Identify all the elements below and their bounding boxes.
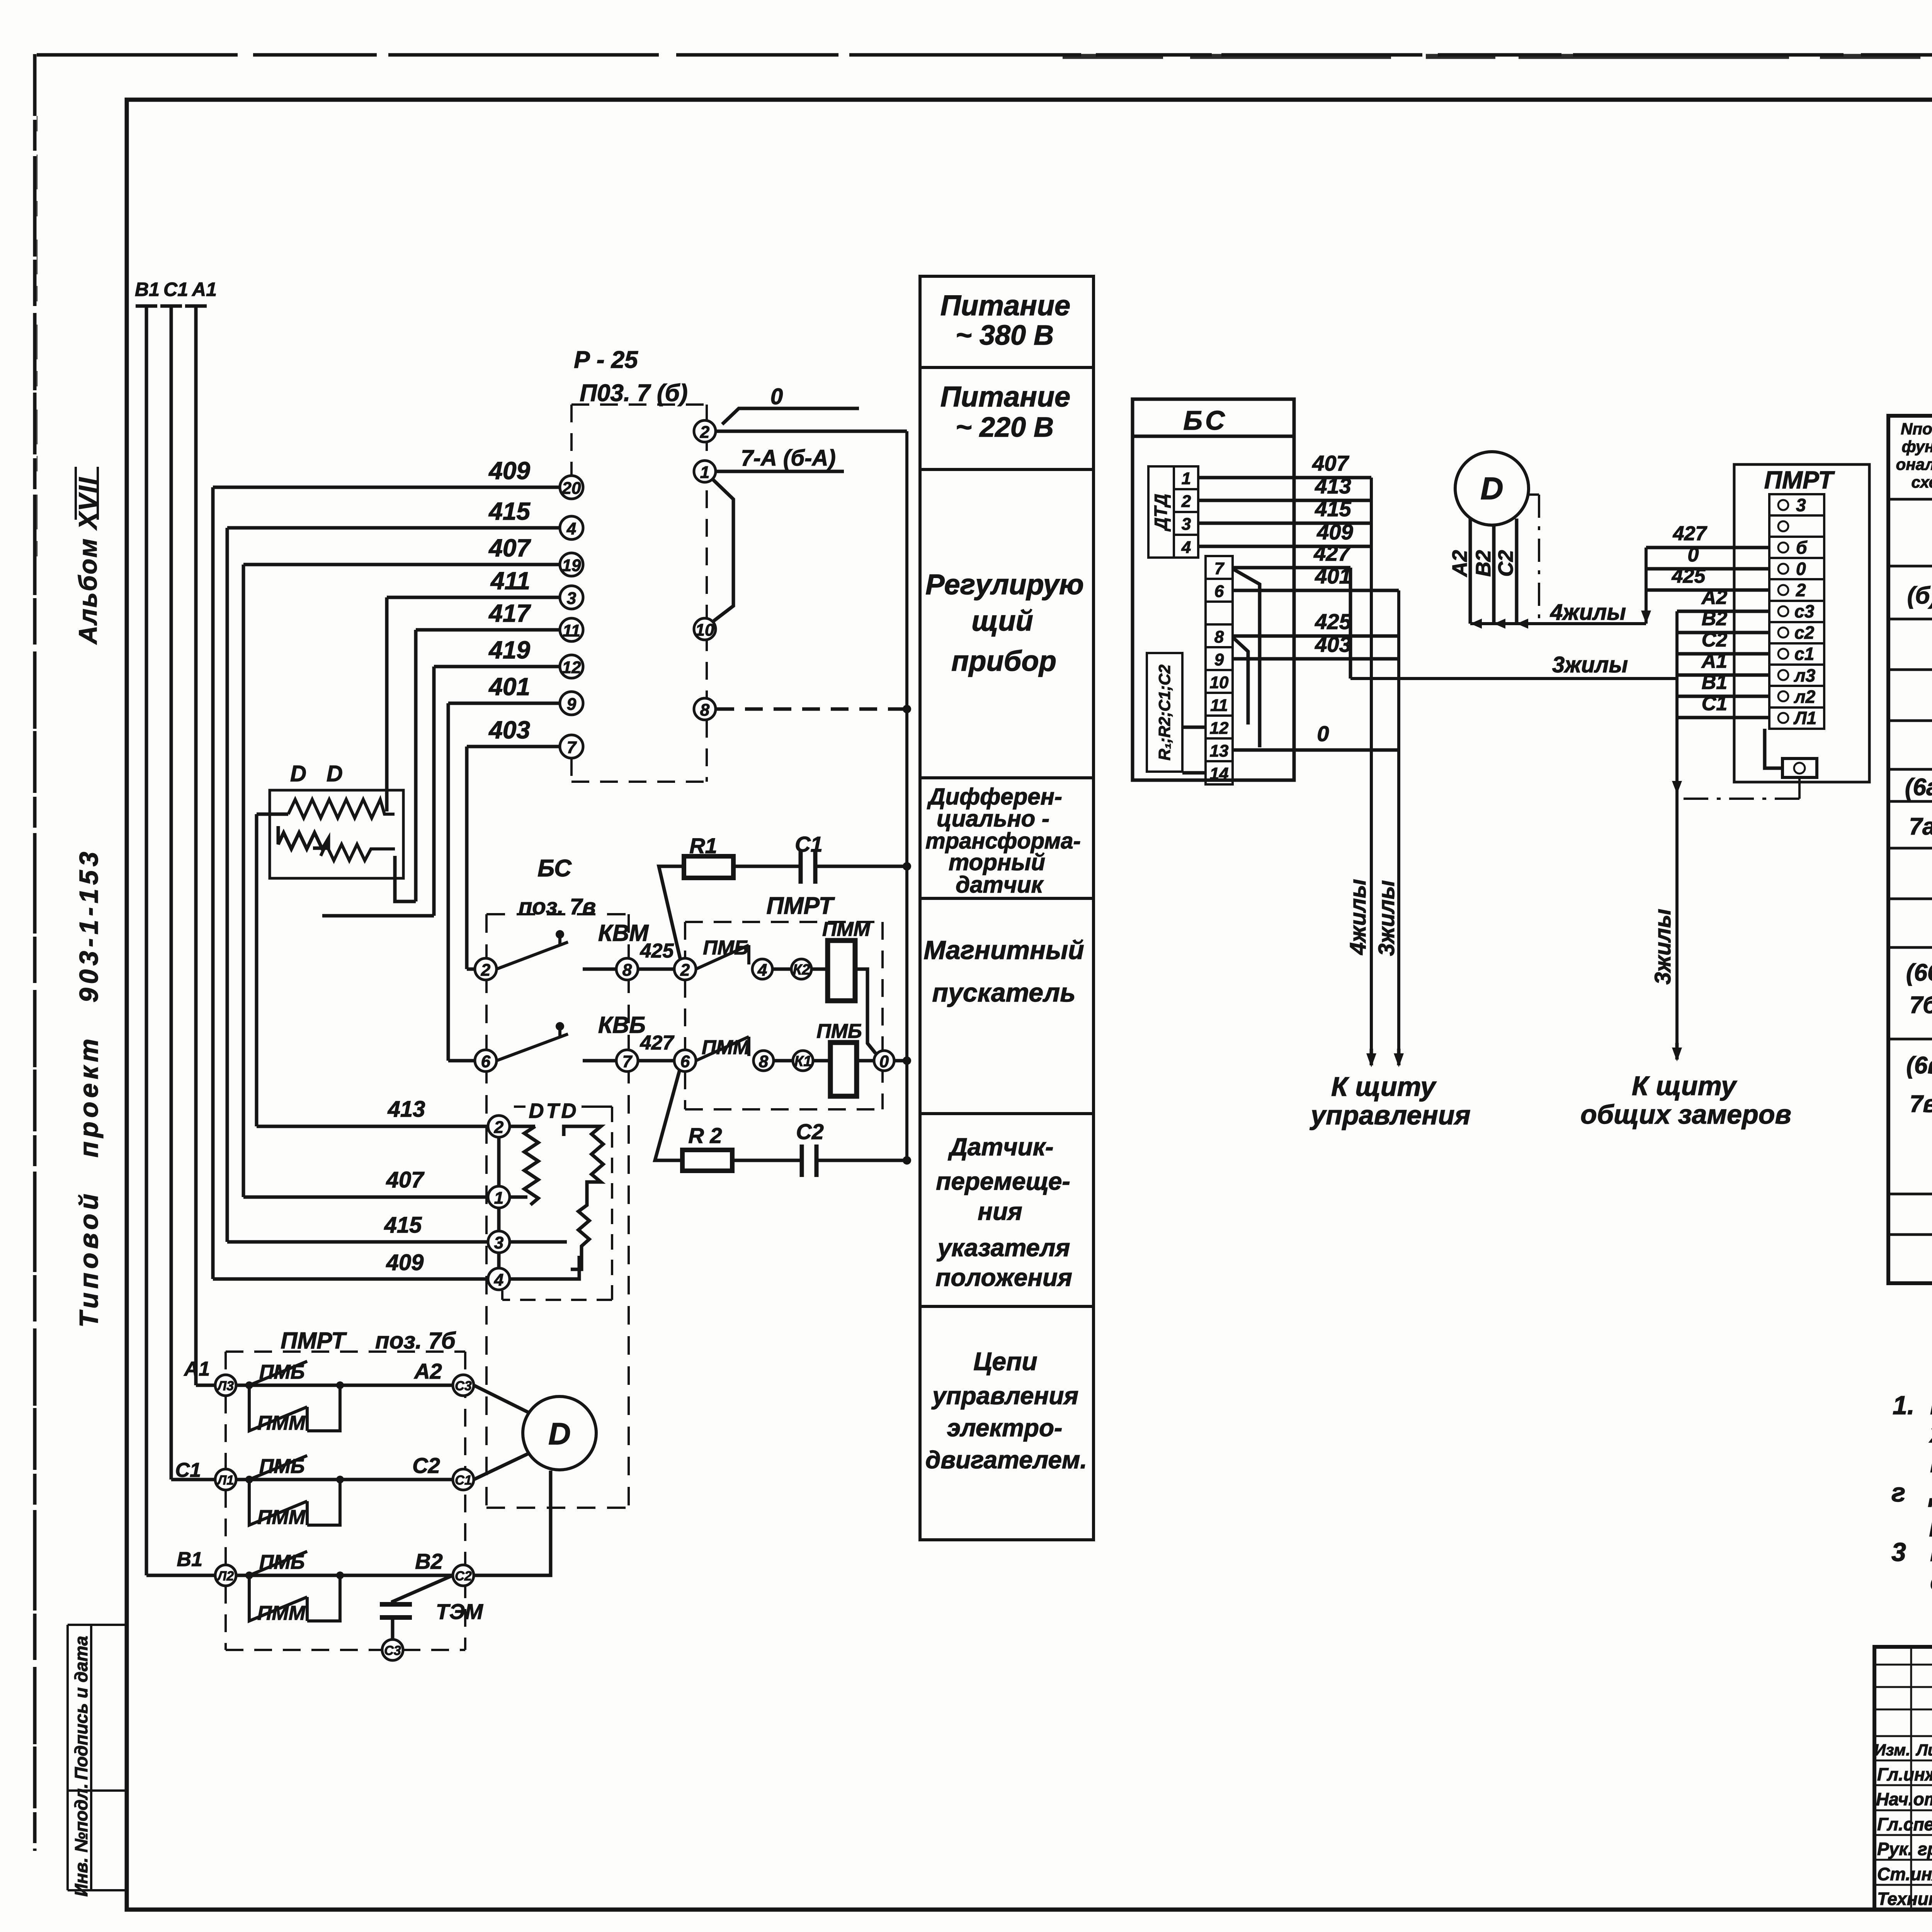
svg-text:ональной: ональной bbox=[1896, 455, 1932, 473]
svg-text:Нач.отд.: Нач.отд. bbox=[1876, 1789, 1932, 1809]
svg-text:С1: С1 bbox=[175, 1459, 201, 1481]
svg-text:2: 2 bbox=[1796, 580, 1806, 600]
svg-text:403: 403 bbox=[1315, 632, 1351, 656]
svg-text:С2: С2 bbox=[1494, 550, 1517, 577]
svg-text:427: 427 bbox=[1313, 541, 1351, 565]
svg-text:Рук. гр.: Рук. гр. bbox=[1877, 1839, 1932, 1859]
svg-text:~ 220 В: ~ 220 В bbox=[956, 412, 1054, 443]
svg-text:(6б): (6б) bbox=[1906, 959, 1932, 986]
svg-text:л3: л3 bbox=[1794, 665, 1816, 685]
svg-text:3жилы: 3жилы bbox=[1374, 880, 1399, 956]
svg-text:ПМРТ: ПМРТ bbox=[1764, 466, 1835, 494]
svg-text:12: 12 bbox=[562, 658, 581, 677]
svg-text:торный: торный bbox=[949, 849, 1045, 875]
svg-text:Магнитный: Магнитный bbox=[923, 935, 1084, 965]
svg-text:6: 6 bbox=[481, 1052, 491, 1071]
svg-text:С1: С1 bbox=[1702, 692, 1727, 715]
svg-text:D D: D D bbox=[290, 761, 350, 786]
svg-text:2: 2 bbox=[494, 1118, 504, 1137]
svg-text:R₁;R2;С1;С2: R₁;R2;С1;С2 bbox=[1155, 665, 1173, 760]
svg-text:4жилы: 4жилы bbox=[1550, 600, 1626, 625]
svg-text:12: 12 bbox=[1210, 719, 1229, 738]
svg-text:ния: ния bbox=[978, 1197, 1022, 1225]
svg-text:В2: В2 bbox=[1472, 550, 1495, 577]
svg-text:общих замеров: общих замеров bbox=[1580, 1099, 1791, 1129]
svg-text:7: 7 bbox=[622, 1052, 633, 1071]
svg-text:3: 3 bbox=[494, 1233, 503, 1252]
svg-text:с1: с1 bbox=[1794, 644, 1814, 664]
svg-text:3жилы: 3жилы bbox=[1552, 652, 1628, 677]
svg-text:поз. 7б: поз. 7б bbox=[375, 1328, 456, 1354]
svg-text:7в: 7в bbox=[1910, 1091, 1932, 1117]
svg-text:8: 8 bbox=[700, 701, 710, 719]
svg-text:пускатель: пускатель bbox=[932, 978, 1075, 1007]
svg-text:В1: В1 bbox=[177, 1548, 202, 1571]
svg-text:10: 10 bbox=[696, 621, 714, 639]
svg-text:Л1: Л1 bbox=[216, 1473, 234, 1488]
svg-text:КВБ: КВБ bbox=[598, 1012, 646, 1038]
svg-text:7-А (б-А): 7-А (б-А) bbox=[741, 446, 835, 471]
svg-text:427: 427 bbox=[640, 1032, 675, 1054]
svg-text:6: 6 bbox=[1214, 582, 1224, 601]
svg-text:3: 3 bbox=[1891, 1537, 1906, 1567]
svg-text:Гл.спец.: Гл.спец. bbox=[1877, 1814, 1932, 1834]
svg-text:425: 425 bbox=[1672, 565, 1706, 587]
svg-text:Питание: Питание bbox=[940, 381, 1070, 413]
svg-text:D: D bbox=[1480, 471, 1503, 506]
svg-text:БС: БС bbox=[537, 855, 572, 882]
svg-text:БС: БС bbox=[1183, 405, 1228, 435]
svg-text:позиции регулирующего при: позиции регулирующего прибора bbox=[1930, 1449, 1932, 1478]
svg-text:R1: R1 bbox=[689, 833, 717, 858]
svg-text:прибор: прибор bbox=[951, 645, 1056, 677]
svg-text:Л3: Л3 bbox=[216, 1379, 234, 1393]
svg-text:2: 2 bbox=[680, 961, 690, 980]
svg-text:ТЭМ: ТЭМ bbox=[436, 1599, 483, 1624]
svg-text:4жилы: 4жилы bbox=[1345, 879, 1371, 955]
svg-text:схеме: схеме bbox=[1912, 473, 1932, 491]
svg-text:П03. 7 (б): П03. 7 (б) bbox=[580, 380, 687, 406]
svg-text:425: 425 bbox=[640, 940, 674, 962]
svg-text:А2: А2 bbox=[413, 1359, 442, 1383]
svg-text:0: 0 bbox=[1688, 544, 1699, 566]
svg-text:D: D bbox=[548, 1417, 571, 1451]
svg-text:В1: В1 bbox=[1702, 671, 1727, 694]
svg-text:0: 0 bbox=[770, 384, 783, 409]
svg-text:ПММ: ПММ bbox=[257, 1412, 306, 1434]
svg-text:407: 407 bbox=[1312, 451, 1349, 475]
svg-text:(б), 7: (б), 7 bbox=[1907, 582, 1932, 609]
svg-text:2: 2 bbox=[481, 961, 491, 980]
svg-text:А1: А1 bbox=[184, 1358, 210, 1380]
svg-text:ПММ: ПММ bbox=[822, 918, 871, 940]
svg-text:В2: В2 bbox=[1702, 607, 1728, 630]
svg-text:427: 427 bbox=[1673, 522, 1708, 545]
svg-text:409: 409 bbox=[1316, 520, 1353, 544]
svg-text:8: 8 bbox=[622, 961, 632, 980]
svg-text:0: 0 bbox=[1317, 721, 1329, 746]
svg-text:Л1: Л1 bbox=[1793, 708, 1816, 728]
svg-text:6: 6 bbox=[680, 1052, 690, 1071]
svg-text:ПМРТ: ПМРТ bbox=[281, 1328, 347, 1354]
svg-text:циально -: циально - bbox=[937, 806, 1049, 832]
svg-text:В2: В2 bbox=[415, 1549, 443, 1573]
svg-text:управления: управления bbox=[931, 1382, 1078, 1410]
svg-text:1.: 1. bbox=[1893, 1391, 1915, 1420]
svg-text:11: 11 bbox=[1210, 696, 1228, 715]
svg-text:с3: с3 bbox=[1794, 601, 1815, 621]
svg-text:С3: С3 bbox=[455, 1379, 472, 1393]
svg-text:ПММ: ПММ bbox=[257, 1506, 306, 1529]
svg-text:управления: управления bbox=[1310, 1100, 1470, 1130]
svg-text:4: 4 bbox=[1181, 538, 1191, 557]
svg-text:409: 409 bbox=[488, 457, 530, 485]
svg-text:ПМБ: ПМБ bbox=[259, 1551, 305, 1573]
svg-text:жилы проставить индекс, со: жилы проставить индекс, соответствующий bbox=[1929, 1419, 1932, 1448]
svg-text:3жилы: 3жилы bbox=[1650, 909, 1675, 985]
svg-text:407: 407 bbox=[386, 1167, 425, 1192]
svg-text:~ 380 В: ~ 380 В bbox=[956, 320, 1054, 351]
svg-text:Альбом XVII: Альбом XVII bbox=[73, 476, 102, 645]
svg-text:Типовой проект 903-1-153: Типовой проект 903-1-153 bbox=[74, 848, 104, 1327]
svg-text:Данная схема действительна: Данная схема действительна для регулятор… bbox=[1928, 1478, 1932, 1507]
svg-text:Питание: Питание bbox=[940, 289, 1070, 321]
svg-text:А2: А2 bbox=[1701, 586, 1728, 609]
svg-text:ПМБ: ПМБ bbox=[259, 1455, 305, 1478]
svg-text:401: 401 bbox=[1315, 564, 1351, 588]
svg-text:1: 1 bbox=[1182, 469, 1191, 488]
svg-text:4: 4 bbox=[757, 961, 767, 980]
svg-text:Монтажную схему ПМРТ- 69-1: Монтажную схему ПМРТ- 69-1 привести в bbox=[1930, 1537, 1932, 1567]
svg-text:С3: С3 bbox=[384, 1643, 401, 1658]
svg-text:с2: с2 bbox=[1794, 622, 1815, 643]
svg-text:В монтажной схеме перед: В монтажной схеме перед маркировкой bbox=[1930, 1391, 1932, 1420]
svg-text:Регулирую: Регулирую bbox=[925, 568, 1084, 600]
svg-text:С2: С2 bbox=[455, 1569, 472, 1583]
svg-text:14: 14 bbox=[1210, 764, 1229, 783]
svg-text:К1: К1 bbox=[794, 1053, 812, 1070]
svg-text:417: 417 bbox=[488, 599, 531, 627]
svg-text:указателя: указателя bbox=[937, 1234, 1070, 1262]
svg-text:20: 20 bbox=[562, 479, 581, 498]
svg-text:А1: А1 bbox=[191, 279, 217, 300]
svg-text:0: 0 bbox=[1796, 559, 1806, 579]
svg-text:А1: А1 bbox=[1701, 650, 1727, 672]
svg-text:8: 8 bbox=[1214, 628, 1224, 646]
svg-text:А2: А2 bbox=[1448, 550, 1471, 577]
svg-text:0: 0 bbox=[879, 1052, 889, 1071]
svg-text:4: 4 bbox=[566, 519, 576, 538]
svg-text:413: 413 bbox=[1315, 474, 1351, 498]
svg-text:К щиту: К щиту bbox=[1632, 1071, 1737, 1101]
svg-text:Л2: Л2 bbox=[216, 1569, 234, 1583]
svg-text:1: 1 bbox=[494, 1189, 503, 1207]
svg-text:С1: С1 bbox=[163, 279, 188, 300]
svg-text:407: 407 bbox=[488, 534, 531, 562]
svg-text:Гл.инж.: Гл.инж. bbox=[1877, 1764, 1932, 1784]
svg-text:перемеще-: перемеще- bbox=[936, 1167, 1070, 1195]
svg-text:ПММ: ПММ bbox=[257, 1602, 306, 1624]
svg-text:9: 9 bbox=[1214, 650, 1224, 669]
svg-text:г: г bbox=[1891, 1478, 1905, 1507]
svg-text:ПМБ: ПМБ bbox=[259, 1361, 305, 1383]
svg-text:электро-: электро- bbox=[947, 1414, 1063, 1442]
svg-text:2: 2 bbox=[700, 423, 710, 442]
svg-text:1: 1 bbox=[700, 463, 709, 482]
svg-text:ДТД: ДТД bbox=[1151, 494, 1171, 532]
svg-text:415: 415 bbox=[488, 497, 531, 525]
svg-text:(6в): (6в) bbox=[1906, 1052, 1932, 1079]
svg-text:7а: 7а bbox=[1909, 813, 1932, 840]
svg-text:Nпоз. по: Nпоз. по bbox=[1901, 420, 1932, 438]
svg-text:419: 419 bbox=[488, 636, 530, 664]
svg-text:3: 3 bbox=[1182, 515, 1191, 534]
svg-text:положения: положения bbox=[935, 1264, 1072, 1291]
svg-text:3: 3 bbox=[1796, 495, 1806, 515]
svg-text:л2: л2 bbox=[1794, 687, 1816, 707]
svg-text:3: 3 bbox=[567, 589, 576, 608]
svg-text:ПМБ: ПМБ bbox=[816, 1020, 862, 1043]
svg-text:двигателем.: двигателем. bbox=[925, 1446, 1087, 1474]
svg-text:9: 9 bbox=[567, 695, 577, 714]
svg-text:Техник: Техник bbox=[1877, 1889, 1932, 1909]
svg-text:С1: С1 bbox=[795, 832, 823, 856]
svg-text:(6а): (6а) bbox=[1905, 774, 1932, 801]
svg-text:409: 409 bbox=[386, 1250, 424, 1275]
svg-text:4: 4 bbox=[494, 1270, 503, 1289]
svg-text:поз. 7в: поз. 7в bbox=[519, 894, 596, 919]
svg-text:7: 7 bbox=[567, 738, 577, 757]
svg-text:ПММ: ПММ bbox=[702, 1036, 750, 1059]
svg-text:С1: С1 bbox=[455, 1473, 471, 1488]
svg-text:разрежения .: разрежения . bbox=[1929, 1507, 1932, 1537]
svg-text:7: 7 bbox=[1214, 559, 1225, 578]
svg-text:R 2: R 2 bbox=[688, 1123, 722, 1148]
svg-text:Изм.: Изм. bbox=[1874, 1741, 1910, 1759]
svg-text:10: 10 bbox=[1210, 673, 1229, 692]
svg-text:425: 425 bbox=[1315, 609, 1351, 634]
svg-text:415: 415 bbox=[384, 1213, 422, 1238]
svg-text:Инв. №подл.: Инв. №подл. bbox=[71, 1784, 91, 1897]
svg-text:403: 403 bbox=[488, 716, 530, 744]
svg-text:19: 19 bbox=[562, 556, 581, 575]
svg-text:В1: В1 bbox=[135, 279, 160, 300]
svg-text:7б: 7б bbox=[1910, 992, 1932, 1019]
svg-text:датчик: датчик bbox=[956, 872, 1044, 898]
svg-text:Подпись и дата: Подпись и дата bbox=[71, 1636, 91, 1780]
svg-text:С2: С2 bbox=[796, 1119, 824, 1144]
svg-text:ПМБ: ПМБ bbox=[703, 937, 748, 959]
svg-text:К2: К2 bbox=[793, 962, 810, 978]
svg-text:С2: С2 bbox=[1702, 629, 1728, 651]
svg-text:щий: щий bbox=[971, 605, 1033, 637]
svg-text:функци-: функци- bbox=[1902, 437, 1932, 456]
svg-text:DТD: DТD bbox=[529, 1099, 579, 1122]
svg-text:2: 2 bbox=[1181, 492, 1191, 511]
svg-text:К щиту: К щиту bbox=[1331, 1071, 1437, 1102]
svg-text:13: 13 bbox=[1210, 742, 1229, 760]
svg-text:б: б bbox=[1796, 537, 1808, 558]
svg-text:Р - 25: Р - 25 bbox=[574, 347, 638, 373]
svg-text:415: 415 bbox=[1315, 497, 1351, 521]
svg-text:413: 413 bbox=[388, 1097, 425, 1122]
svg-text:С2: С2 bbox=[412, 1453, 440, 1478]
svg-text:соответствие с настоящей: соответствие с настоящей схемой bbox=[1930, 1567, 1932, 1596]
svg-text:8: 8 bbox=[759, 1052, 769, 1071]
svg-text:Цепи: Цепи bbox=[973, 1347, 1037, 1376]
svg-text:Ст.инж.: Ст.инж. bbox=[1877, 1864, 1932, 1884]
svg-text:11: 11 bbox=[563, 621, 580, 640]
svg-text:Лит: Лит bbox=[1915, 1741, 1932, 1759]
svg-text:411: 411 bbox=[490, 567, 530, 595]
svg-text:ПМРТ: ПМРТ bbox=[766, 893, 835, 919]
svg-text:401: 401 bbox=[488, 673, 530, 701]
svg-text:Датчик-: Датчик- bbox=[948, 1133, 1054, 1161]
